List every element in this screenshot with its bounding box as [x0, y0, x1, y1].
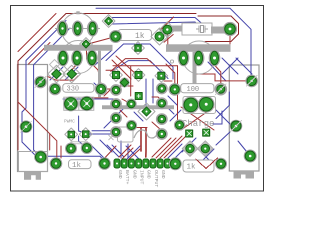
wire	[213, 111, 222, 124]
wire	[128, 149, 140, 160]
wire	[120, 85, 133, 87]
pads layer	[20, 15, 258, 171]
connector labels	[117, 170, 166, 187]
silkscreen tick pad left	[21, 121, 32, 132]
pad round	[109, 30, 122, 43]
wire	[18, 102, 57, 158]
wire	[126, 146, 140, 160]
wire	[126, 146, 140, 160]
svg-text:GND: GND	[117, 170, 123, 179]
wire	[145, 79, 147, 107]
wire	[63, 98, 116, 100]
pad left bottom corner	[20, 120, 33, 133]
wire	[95, 50, 112, 65]
switch SW1 legs	[24, 172, 41, 180]
connector big pad right	[169, 157, 182, 170]
speaker pads row2	[57, 50, 98, 67]
pads center misc	[126, 99, 155, 132]
wire	[161, 17, 174, 30]
wire	[164, 35, 173, 43]
switch SW1 tall body	[18, 65, 48, 172]
wire	[105, 146, 116, 158]
wire	[236, 58, 252, 74]
square plus pad	[135, 93, 142, 100]
crystal body	[182, 23, 212, 35]
wire	[208, 62, 226, 81]
wire	[167, 107, 174, 114]
wire	[164, 133, 189, 158]
wire blue diag squares 1	[112, 61, 168, 79]
pad right mid	[230, 120, 243, 133]
svg-text:1k: 1k	[187, 164, 197, 172]
wire	[170, 110, 181, 121]
overlay traces	[21, 76, 258, 169]
squares X pair	[186, 129, 210, 137]
wire X near top right	[222, 58, 238, 74]
wire red via diamond vertical	[87, 37, 115, 59]
resistor R_100 box	[181, 84, 214, 93]
wire	[196, 74, 252, 81]
silkscreen cross	[109, 135, 114, 140]
wire	[129, 127, 147, 129]
resistor R_1k bottom-left box	[69, 160, 92, 169]
via diamond top	[102, 15, 115, 28]
pads at 1k top	[151, 22, 175, 45]
wire red fan 1	[152, 138, 171, 157]
wire	[198, 149, 214, 165]
svg-text:Charge: Charge	[182, 119, 214, 129]
wire	[122, 148, 133, 159]
wire	[152, 122, 161, 130]
wire	[92, 64, 101, 84]
wire	[229, 34, 231, 44]
red traces layer	[18, 14, 252, 161]
svg-text:1k: 1k	[135, 32, 145, 41]
silkscreen tick pad 236,126	[231, 121, 242, 132]
wire	[152, 97, 162, 101]
wire	[112, 145, 124, 157]
small boxes under squares	[71, 142, 88, 144]
silkscreen arch	[134, 130, 158, 138]
pad 330 right	[95, 83, 108, 96]
wire diag through diamond 2	[65, 67, 78, 80]
wire red V at bottom right	[196, 158, 218, 169]
wire	[166, 64, 175, 84]
wire	[160, 136, 182, 158]
pad P3	[87, 21, 98, 37]
octagon pad left	[34, 76, 47, 89]
pad P6	[86, 50, 98, 67]
wire	[92, 97, 108, 99]
pad P2	[72, 21, 83, 37]
silkscreen bar top-left	[44, 45, 113, 51]
wire	[127, 144, 129, 158]
wire	[130, 66, 132, 84]
wire	[112, 18, 203, 25]
via diamond mid	[80, 38, 93, 51]
wire	[198, 149, 214, 165]
wire	[100, 140, 112, 152]
wire thick red verticals	[140, 128, 142, 151]
wire	[120, 110, 127, 117]
pad right top	[245, 75, 258, 88]
wire	[46, 156, 105, 161]
wire	[72, 64, 77, 74]
resistor R_1k top box	[118, 30, 152, 41]
wire	[156, 138, 176, 158]
wire	[120, 141, 122, 158]
connector small pads	[114, 159, 170, 168]
pad P5	[71, 50, 83, 67]
wire	[122, 99, 131, 104]
pads below squares pair	[65, 143, 77, 155]
wire	[182, 138, 196, 152]
pad P1	[57, 21, 68, 37]
wire	[79, 136, 87, 148]
wire	[238, 141, 250, 156]
wire	[145, 128, 147, 157]
wire	[49, 134, 51, 150]
wire diag through diamond 1	[50, 67, 63, 80]
wire red mid A	[111, 59, 152, 72]
LED box pair	[64, 97, 94, 110]
board outline chamfer	[18, 14, 66, 62]
svg-text:GND: GND	[160, 170, 166, 179]
switch SW2 legs	[234, 171, 255, 179]
svg-text:1k: 1k	[72, 162, 82, 170]
board outline left	[17, 61, 19, 150]
resistor R_1k bottom-right box	[183, 160, 214, 172]
svg-text:BATT+: BATT+	[124, 170, 130, 185]
diamonds pair	[48, 65, 81, 83]
resistor R_330 box	[63, 84, 94, 93]
wire red parallel diag 1	[112, 60, 131, 79]
wire	[130, 84, 132, 96]
wire blue top bus	[96, 8, 252, 81]
charge pads box	[183, 97, 216, 114]
svg-text:330: 330	[67, 86, 80, 94]
blue traces layer	[22, 8, 252, 165]
wire	[86, 133, 112, 135]
wire U under diamonds	[48, 76, 78, 80]
wire	[101, 88, 112, 90]
pad P4	[57, 50, 69, 67]
wire	[104, 88, 112, 96]
wire chamfer parallel 1	[22, 21, 66, 158]
speaker circle row2	[62, 41, 95, 74]
connector big pad left	[98, 157, 111, 170]
crystal lead left	[169, 26, 182, 32]
wire	[60, 146, 62, 158]
wire crystal outline	[198, 16, 239, 42]
silkscreen tick pad 40.5,82	[35, 77, 46, 88]
silkscreen diamond at line end	[50, 60, 60, 70]
pad P7	[178, 50, 190, 67]
switch SW2 pad	[244, 150, 257, 163]
silkscreen tick pad 251.7,81	[247, 76, 258, 87]
switch SW1 inner box	[19, 152, 48, 172]
pad charge left	[174, 119, 185, 130]
silkscreen layer	[19, 11, 255, 187]
wire	[29, 43, 51, 65]
header B pads	[156, 83, 168, 140]
squares bottom-left pair	[65, 128, 93, 155]
pad 100 left	[169, 83, 182, 96]
wire	[107, 145, 119, 157]
pad P8	[193, 50, 205, 67]
pads below squares	[182, 141, 213, 157]
wire red X charge a	[181, 107, 214, 130]
switch SW1 pads	[34, 150, 62, 169]
header A pads	[110, 84, 122, 138]
wire right blue 2	[216, 110, 236, 126]
wire bottom fan 1	[90, 144, 104, 158]
pad P9	[209, 50, 221, 67]
silkscreen bar middle	[102, 105, 174, 109]
wire	[168, 96, 177, 105]
wire	[119, 145, 131, 157]
board outline top	[66, 13, 196, 15]
wire	[134, 112, 143, 121]
svg-text:OUTPUT: OUTPUT	[153, 170, 159, 187]
pad near 100 right	[215, 83, 228, 96]
speaker pads row1	[57, 21, 99, 37]
squares trio mid	[110, 69, 168, 88]
pad 330 left	[49, 83, 62, 96]
silkscreen bar top-right	[166, 44, 231, 52]
crystal pad	[223, 22, 237, 36]
svg-text:PWMC: PWMC	[64, 119, 75, 125]
wire	[222, 58, 238, 74]
right trio pads	[178, 50, 221, 67]
crystal glyph	[196, 26, 208, 33]
svg-text:GND: GND	[131, 170, 137, 179]
crystal lead right	[211, 27, 227, 34]
pad square	[132, 42, 145, 55]
wire charge block top	[113, 66, 178, 120]
wire right blue 3	[216, 131, 231, 145]
wire right blue 1	[216, 92, 229, 119]
wire	[168, 144, 182, 158]
pad right of 1k bottom-right	[215, 158, 227, 170]
silkscreen vertical bar right	[193, 52, 197, 84]
svg-text:GND: GND	[146, 170, 152, 179]
silkscreen vertical bar	[98, 51, 101, 97]
silkscreen box center	[118, 127, 134, 142]
wire red mid B	[106, 69, 115, 71]
wire	[175, 143, 190, 158]
wire chamfer parallel 2	[34, 28, 70, 157]
wire	[104, 104, 128, 128]
speaker circle row1	[62, 13, 95, 46]
svg-text:INPUT: INPUT	[139, 170, 145, 185]
wire red X charge b	[181, 107, 214, 130]
wire red parallel diag 2	[116, 56, 137, 75]
wire	[215, 65, 221, 83]
wire blue diag squares 2	[106, 44, 173, 79]
switch SW2 tall body	[229, 65, 259, 171]
wire	[92, 130, 116, 132]
wire inner chamfer	[18, 14, 56, 52]
charge big pads	[182, 96, 214, 113]
wire	[112, 22, 202, 29]
silkscreen line through row1	[55, 28, 100, 30]
wire	[79, 116, 86, 133]
wire	[164, 80, 172, 82]
wire	[94, 83, 104, 92]
wire	[152, 79, 154, 103]
svg-text:100: 100	[187, 86, 200, 94]
wire	[167, 30, 169, 49]
LED pads big	[63, 96, 94, 112]
silkscreen tick pad 220.8,89	[216, 84, 227, 95]
via diamond small center	[120, 78, 130, 88]
silkscreen circle o1	[170, 60, 173, 63]
